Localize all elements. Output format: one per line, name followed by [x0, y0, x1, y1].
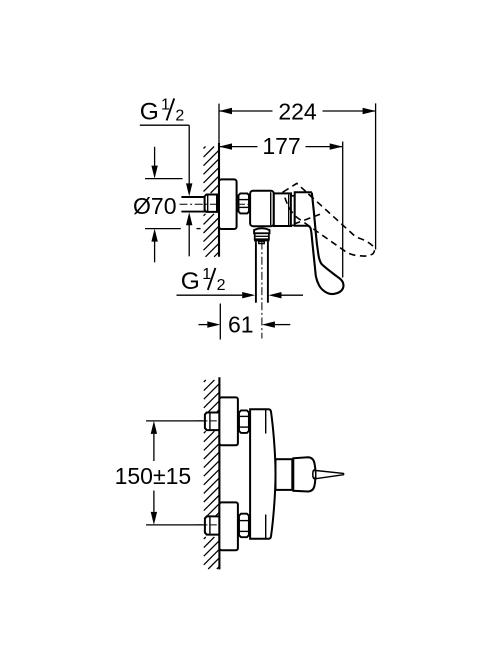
- dimension 177: [219, 133, 343, 277]
- svg-text:G: G: [140, 98, 159, 125]
- svg-text:1: 1: [202, 266, 211, 283]
- wall hatching (bottom view): [204, 380, 220, 569]
- upper escutcheon (bottom view): [219, 397, 238, 445]
- union nut (top view): [239, 193, 250, 213]
- label G 1/2 (inlet, top left): [140, 96, 185, 125]
- label G 1/2 (outlet, lower): [181, 266, 226, 295]
- svg-text:2: 2: [217, 277, 226, 294]
- dimension 224: [219, 98, 376, 249]
- dashed elbow edge of open-position lever: [294, 214, 320, 224]
- lower inlet nut behind wall: [205, 516, 220, 534]
- inlet connection nut behind wall: [205, 195, 217, 212]
- dimension 61: [199, 304, 291, 340]
- wall hatching (top view): [204, 147, 220, 257]
- waist groove: [291, 196, 295, 226]
- wall line (bottom view): [218, 377, 220, 569]
- svg-text:Ø70: Ø70: [133, 193, 176, 219]
- svg-text:224: 224: [278, 98, 317, 124]
- dimension Ø70 (escutcheon diameter): [133, 147, 201, 262]
- cap cone (bottom view): [293, 457, 316, 491]
- svg-text:G: G: [181, 268, 200, 295]
- mixer body (top view): [250, 191, 274, 227]
- cartridge housing (top view): [274, 193, 291, 226]
- leader line from G 1/2 to inlet pipe: [140, 125, 193, 256]
- spout/cartridge boss (bottom view): [276, 459, 293, 490]
- svg-text:61: 61: [228, 311, 254, 337]
- dimension 150±15: [115, 421, 206, 525]
- lower connection centerline: [196, 524, 220, 526]
- lower escutcheon (bottom view): [219, 502, 238, 550]
- svg-text:1: 1: [161, 96, 170, 113]
- cap / dome: [295, 192, 312, 226]
- leader and arrows pointing at outlet pipe: [177, 292, 304, 298]
- inlet centerline: [180, 203, 221, 205]
- inlet pipe behind wall: [181, 197, 219, 212]
- svg-text:150±15: 150±15: [115, 463, 192, 489]
- upper inlet nut behind wall: [205, 413, 220, 431]
- lever handle (solid, closed position): [308, 193, 344, 294]
- upper union nut (bottom view): [239, 410, 249, 433]
- wall line (top view) with extension above: [218, 104, 220, 257]
- mixer body (bottom view): [250, 409, 275, 539]
- lever seen edge-on (needle): [316, 471, 344, 479]
- svg-text:2: 2: [175, 107, 184, 124]
- outlet pipe centerline: [261, 242, 263, 339]
- outlet connector under body: [254, 228, 270, 243]
- lever handle (dashed, open position): [283, 183, 374, 256]
- upper connection centerline: [196, 420, 220, 422]
- lower union nut (bottom view): [239, 514, 249, 538]
- escutcheon flange on wall (top view): [219, 179, 237, 229]
- shower outlet pipe: [256, 241, 268, 302]
- svg-text:177: 177: [262, 133, 300, 159]
- stub between escutcheon and union nut: [237, 197, 239, 211]
